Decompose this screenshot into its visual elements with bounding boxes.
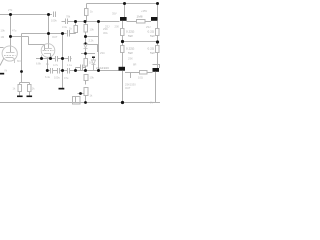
MOSFET Q4 blob bottom-right xyxy=(153,68,160,72)
svg-text:10k: 10k xyxy=(90,76,95,80)
node dot y70.5 x98.5 xyxy=(97,69,100,72)
ground bar mid xyxy=(59,88,65,90)
node dot y58 x62 xyxy=(61,57,64,60)
wire mid bus y58.5 xyxy=(36,58,56,60)
svg-text:0.22Ω: 0.22Ω xyxy=(126,30,135,34)
tube V2 envelope xyxy=(41,44,55,58)
svg-text:5W: 5W xyxy=(128,51,133,55)
svg-text:OUT: OUT xyxy=(125,86,131,90)
tube V1 cathode xyxy=(6,58,15,64)
tube V2 plate xyxy=(45,48,52,50)
zobel resistor 10ohm xyxy=(140,71,148,75)
wire x98.5 vertical xyxy=(98,22,100,71)
input terminal bar xyxy=(0,73,4,75)
wire branch y44.5 xyxy=(88,45,98,53)
svg-text:0V: 0V xyxy=(150,101,153,105)
capacitor right of node 48 xyxy=(53,12,55,18)
resistor R x85.5 third xyxy=(84,59,88,67)
svg-text:100u: 100u xyxy=(54,76,60,80)
capacitor pair c on y70.5 xyxy=(67,68,69,74)
resistor R x86 second xyxy=(85,22,87,25)
wire y67 link xyxy=(75,68,77,71)
svg-text:5W: 5W xyxy=(150,51,155,55)
svg-text:6.4u: 6.4u xyxy=(45,75,51,79)
wire x86 from rail down xyxy=(86,4,88,9)
node dot x85.5 y53.5 xyxy=(84,52,87,55)
tube V1 plate xyxy=(6,52,15,54)
node dot y58 x41.5 xyxy=(40,57,43,60)
node dot x85.5 y36.5 xyxy=(84,35,87,38)
wire grid input diagonal xyxy=(0,58,4,66)
node dot rail y3 end xyxy=(156,2,159,5)
tube V1 envelope xyxy=(2,46,17,61)
wire cathode V2 down xyxy=(47,58,49,71)
wire grid branch y36 xyxy=(11,36,29,38)
MOSFET Q3 blob bottom-left xyxy=(119,67,126,71)
node dot y33 x62 xyxy=(61,32,64,35)
tube V1 grid dashes xyxy=(4,55,16,57)
diode D1 x85.5 xyxy=(84,44,88,49)
capacitor pair y67 xyxy=(80,65,82,71)
node dot bottom rail x122 xyxy=(121,101,124,104)
svg-text:1 1u: 1 1u xyxy=(67,63,73,67)
node dot output left xyxy=(121,40,124,43)
node dot plate V2 top xyxy=(47,32,50,35)
wire branch y36.5 xyxy=(86,36,99,38)
resistor Rk2 xyxy=(28,85,32,92)
MOSFET Q1 blob top-left xyxy=(124,4,126,18)
wire cathode leads V2 xyxy=(41,56,43,59)
source resistor RS4 xyxy=(156,46,160,53)
capacitor bar ground 2 xyxy=(27,96,33,98)
svg-text:1M8: 1M8 xyxy=(137,15,143,19)
capacitor pair a on y70.5 xyxy=(50,68,52,74)
wire y53.5 stub xyxy=(81,53,95,55)
resistor Rk1 xyxy=(18,85,22,92)
svg-text:78k: 78k xyxy=(66,15,71,19)
wire input stub xyxy=(0,47,4,49)
svg-text:OUT: OUT xyxy=(52,35,58,39)
capacitor pair b on y70.5 xyxy=(57,68,59,74)
svg-text:0.22Ω: 0.22Ω xyxy=(126,47,135,51)
capacitor bar ground 1 xyxy=(17,96,23,98)
node dot y70.5 x47 xyxy=(46,69,49,72)
svg-text:30A: 30A xyxy=(103,31,108,35)
resistor below x85.5 xyxy=(84,75,88,81)
node dot rail x85.5 xyxy=(84,101,87,104)
tube V2 cathode xyxy=(44,53,51,55)
svg-text:2SJ: 2SJ xyxy=(105,25,110,29)
node dot y58 x50 xyxy=(49,57,52,60)
resistor Rp x75.5 xyxy=(75,22,77,26)
wire plate V2 vertical xyxy=(48,15,50,49)
node dot y70.5 x85.5 xyxy=(84,69,87,72)
bottom rail xyxy=(0,102,160,104)
capacitor on y21 xyxy=(65,19,67,25)
wire top-left B+ rail xyxy=(0,14,52,16)
source resistor RS1 xyxy=(122,21,124,29)
source resistor RS3 xyxy=(157,21,159,29)
node junction dot at plate feed V2 xyxy=(47,13,50,16)
MOSFET Q2 blob top-right xyxy=(157,4,159,18)
node dot y21 x84.5 xyxy=(84,20,87,23)
source resistor RS2 xyxy=(121,46,125,53)
capacitor coupling on y33 xyxy=(67,30,69,37)
svg-text:2SC: 2SC xyxy=(100,51,105,55)
wire plate V1 xyxy=(10,15,12,53)
wire x62 down to ground xyxy=(62,34,64,89)
svg-text:200: 200 xyxy=(115,25,120,29)
node junction dot grid V1 xyxy=(9,35,12,38)
connector box bottom middle xyxy=(73,97,81,105)
capacitor C on y58 right xyxy=(68,56,70,62)
tube V2 grid dashes xyxy=(43,50,54,52)
svg-text:6.8k: 6.8k xyxy=(36,62,42,66)
diode D2 mid xyxy=(92,57,95,59)
speaker terminal lines xyxy=(153,65,160,69)
node dot y70.5 x62 xyxy=(61,69,64,72)
svg-text:IN: IN xyxy=(5,69,8,73)
node dot output right xyxy=(156,40,159,43)
wire top-right rail y3 xyxy=(87,3,158,5)
node junction dot left rail xyxy=(9,13,12,16)
svg-text:5W: 5W xyxy=(150,34,155,38)
svg-text:4.7u: 4.7u xyxy=(53,63,59,67)
resistor lower x85.5 xyxy=(85,81,87,85)
svg-text:2SK: 2SK xyxy=(128,57,133,61)
wire mid rail y21 xyxy=(62,21,66,23)
node dot rail y3 x124 xyxy=(123,2,126,5)
svg-text:10k: 10k xyxy=(1,29,6,33)
svg-text:+35V: +35V xyxy=(141,9,147,13)
zobel wiring xyxy=(125,73,131,79)
wire coupling loop xyxy=(29,37,45,51)
svg-text:0.2Ω: 0.2Ω xyxy=(148,30,155,34)
output rail y41.5 xyxy=(123,41,158,43)
wire mid bus y70.5 xyxy=(48,70,51,72)
svg-text:3.3u: 3.3u xyxy=(62,25,68,29)
svg-text:100k: 100k xyxy=(51,19,57,23)
svg-text:2Tk: 2Tk xyxy=(8,8,13,12)
node dot cathode bus xyxy=(20,70,23,73)
svg-text:5W: 5W xyxy=(128,34,133,38)
svg-text:2SK1530: 2SK1530 xyxy=(125,83,136,87)
node dot above connector xyxy=(79,92,82,95)
node dot y21 x98 xyxy=(97,20,100,23)
resistor R x86 top xyxy=(85,9,89,16)
svg-text:47u: 47u xyxy=(64,76,69,80)
capacitor C on y58 left xyxy=(55,56,57,62)
svg-text:10Ω: 10Ω xyxy=(138,76,143,80)
svg-text:2SJ: 2SJ xyxy=(146,25,151,29)
wire plate line y33 xyxy=(22,33,67,35)
svg-text:2.2k: 2.2k xyxy=(89,39,95,43)
svg-text:10k: 10k xyxy=(90,28,95,32)
svg-text:8R: 8R xyxy=(133,63,136,67)
svg-text:1M: 1M xyxy=(1,35,5,39)
svg-text:47u: 47u xyxy=(12,29,17,33)
gate resistor between Q1 Q2 xyxy=(127,21,137,23)
node dot y21 x75.5 xyxy=(74,20,77,23)
svg-text:0.2Ω: 0.2Ω xyxy=(148,47,155,51)
node dot y70.5 x75.5 xyxy=(74,69,77,72)
svg-text:6N1: 6N1 xyxy=(17,59,22,63)
svg-text:35V: 35V xyxy=(112,12,117,16)
wire cathode bus vertical x21.5 xyxy=(20,34,22,83)
